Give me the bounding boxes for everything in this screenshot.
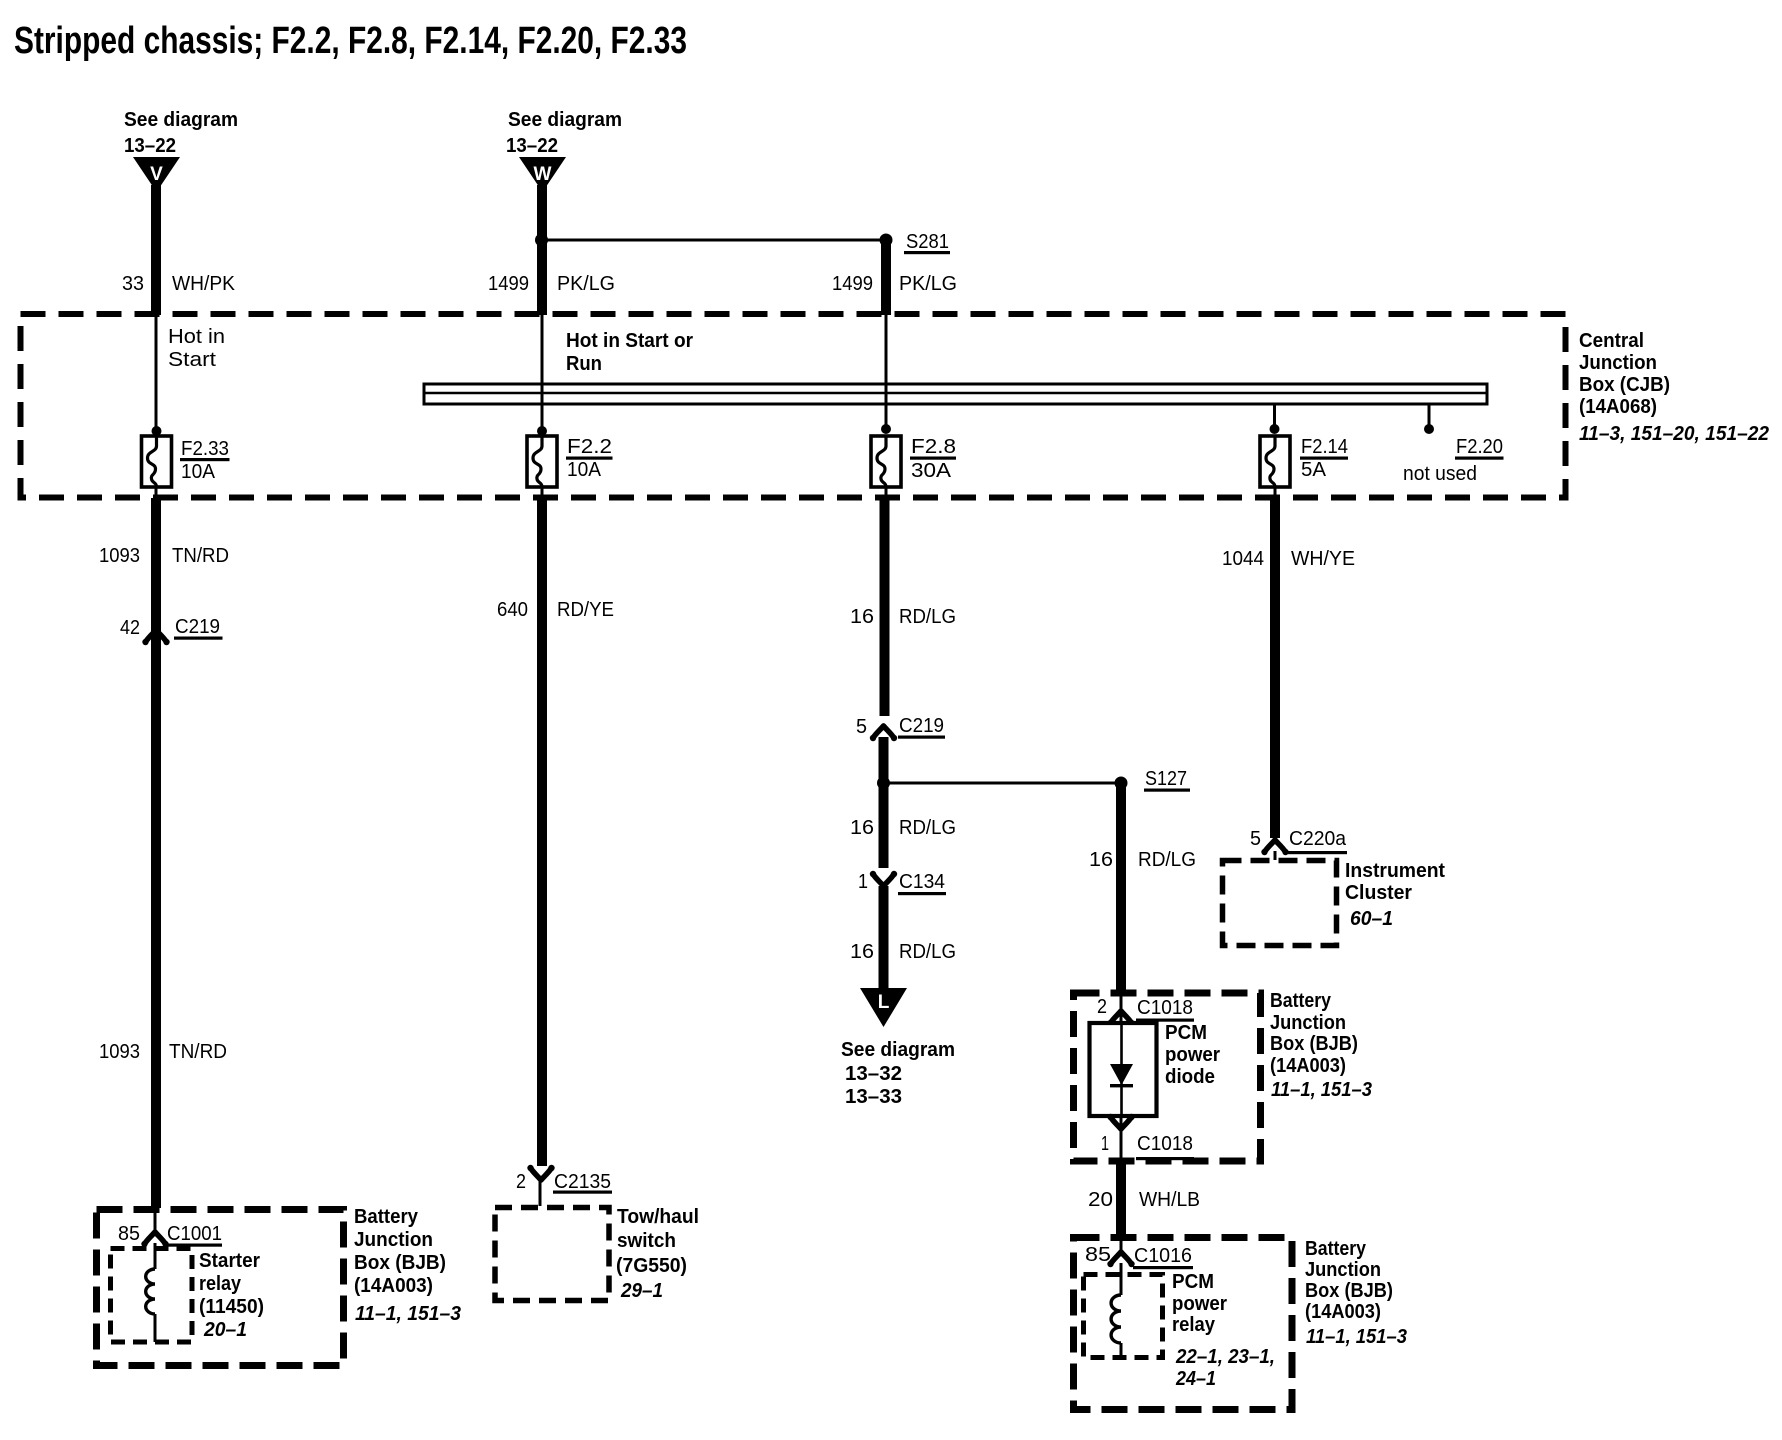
svg-text:TN/RD: TN/RD [169,1041,227,1063]
svg-text:See diagram: See diagram [124,109,238,131]
label PCM power relay [1172,1271,1275,1390]
label Battery Junction Box (BJB) (14A003) 11-1, 151-3 (left) [354,1206,461,1325]
svg-text:Box (BJB): Box (BJB) [1305,1280,1393,1302]
svg-text:16: 16 [850,817,874,839]
wire below C134 [879,886,889,988]
svg-text:W: W [534,164,552,185]
svg-text:13–33: 13–33 [845,1086,902,1108]
svg-text:F2.2: F2.2 [567,436,612,458]
svg-text:85: 85 [118,1223,140,1245]
svg-text:2: 2 [516,1171,526,1193]
svg-text:C219: C219 [175,616,220,638]
svg-text:diode: diode [1165,1066,1215,1088]
label 16 RD/LG fourth [1089,849,1196,871]
connector C134 pin 1 [858,871,946,895]
label 20 WH/LB [1088,1189,1200,1211]
splice S127 [1115,768,1191,792]
svg-text:F2.33: F2.33 [181,438,229,460]
wire into starter relay [154,1210,157,1232]
wire into instrument cluster [1274,851,1277,860]
svg-text:PK/LG: PK/LG [557,273,615,295]
svg-text:Junction: Junction [1270,1012,1346,1034]
svg-text:F2.8: F2.8 [911,436,956,458]
label Tow/haul switch (7G550) 29-1 [616,1206,699,1302]
svg-text:S127: S127 [1145,768,1187,790]
splice node to S127 [877,777,890,790]
label Central Junction Box (CJB) (14A068) 11-3, 151-20, 151-22 [1579,330,1769,445]
svg-text:(14A003): (14A003) [1305,1301,1381,1323]
PCM power diode box [1090,1023,1157,1116]
label Starter relay (11450) 20-1 [199,1250,264,1341]
svg-text:Hot in Start or: Hot in Start or [566,330,693,352]
starter relay box [111,1249,193,1343]
label 33 WH/PK [122,273,236,295]
label 1093 TN/RD upper [99,545,229,567]
svg-text:Run: Run [566,353,602,375]
label Battery Junction Box (BJB) (14A003) 11-1, 151-3 (relay) [1305,1238,1407,1348]
wire F2.33 to CJB edge [155,487,158,498]
svg-text:11–1, 151–3: 11–1, 151–3 [355,1303,461,1325]
label F2.14 5A [1300,436,1348,481]
wire to splice S281 [542,239,886,242]
svg-text:1: 1 [1101,1133,1109,1155]
svg-text:C220a: C220a [1289,828,1347,850]
node above F2.14 [1270,424,1280,434]
svg-text:C2135: C2135 [554,1171,611,1193]
svg-text:Instrument: Instrument [1345,860,1445,882]
node above F2.2 [537,426,547,436]
connector V from diagram 13-22 [124,109,238,192]
wire to splice S127 [884,782,1122,785]
svg-text:RD/LG: RD/LG [899,606,956,628]
label Hot in Start [168,326,225,371]
svg-text:Box (BJB): Box (BJB) [354,1252,446,1274]
wire below PCM relay coil [1120,1343,1123,1357]
svg-text:Stripped chassis; F2.2, F2.8,: Stripped chassis; F2.2, F2.8, F2.14, F2.… [14,20,687,62]
svg-text:PK/LG: PK/LG [899,273,957,295]
svg-text:V: V [150,164,163,185]
svg-text:PCM: PCM [1172,1271,1214,1293]
title [14,20,687,62]
svg-text:(14A003): (14A003) [1270,1055,1346,1077]
svg-text:1093: 1093 [99,545,140,567]
svg-text:F2.20: F2.20 [1456,436,1503,458]
label 16 RD/LG second [850,817,956,839]
svg-text:Box (CJB): Box (CJB) [1579,374,1670,396]
svg-text:1093: 1093 [99,1041,140,1063]
svg-text:Tow/haul: Tow/haul [617,1206,699,1228]
svg-text:(7G550): (7G550) [616,1255,687,1277]
label F2.20 not used [1403,436,1504,485]
label 1044 WH/YE [1222,548,1355,570]
fuse F2.14 5A [1260,436,1290,487]
connector W from diagram 13-22 [506,109,622,192]
svg-text:640: 640 [497,599,528,621]
node F2.20 not used [1424,424,1434,434]
svg-text:S281: S281 [906,231,949,253]
svg-text:Battery: Battery [1270,990,1332,1012]
battery junction box (PCM relay) [1074,1238,1293,1410]
wire 16 RD/LG to PCM diode [1116,783,1126,991]
tow/haul switch box [495,1208,609,1301]
wire inside CJB to fuse F2.8 [885,315,888,432]
wire W bus to fuse F2.2 [541,384,544,432]
svg-text:RD/LG: RD/LG [1138,849,1196,871]
wire to relay coil [154,1243,157,1269]
svg-text:RD/YE: RD/YE [557,599,614,621]
label 1499 PK/LG left [488,273,615,295]
bus bar [424,384,1487,404]
label 640 RD/YE [497,599,614,621]
svg-text:13–32: 13–32 [845,1063,902,1085]
svg-text:Hot in: Hot in [168,326,225,348]
svg-text:C1016: C1016 [1134,1245,1192,1267]
svg-text:TN/RD: TN/RD [172,545,229,567]
svg-text:16: 16 [850,941,874,963]
svg-text:RD/LG: RD/LG [899,817,956,839]
svg-text:Junction: Junction [354,1229,433,1251]
svg-text:16: 16 [850,606,874,628]
svg-text:not used: not used [1403,463,1477,485]
svg-text:power: power [1165,1044,1220,1066]
svg-text:Battery: Battery [1305,1238,1367,1260]
svg-text:Starter: Starter [199,1250,260,1272]
svg-text:relay: relay [199,1273,242,1295]
svg-text:relay: relay [1172,1314,1216,1336]
instrument cluster box [1223,861,1337,946]
svg-text:Junction: Junction [1305,1259,1381,1281]
central junction box (CJB) [21,314,1566,498]
connector C220a pin 5 [1250,828,1347,855]
label Battery Junction Box (BJB) (14A003) 11-1, 151-3 (diode) [1270,990,1372,1101]
svg-text:2: 2 [1097,996,1107,1018]
svg-text:20–1: 20–1 [203,1319,247,1341]
node on W wire [535,234,548,247]
svg-text:85: 85 [1085,1244,1111,1266]
connector L to diagram 13-32/13-33 [841,988,955,1108]
svg-text:42: 42 [120,617,140,639]
svg-text:11–3, 151–20, 151–22: 11–3, 151–20, 151–22 [1579,423,1769,445]
svg-text:L: L [878,992,890,1013]
svg-text:switch: switch [617,1230,676,1252]
svg-text:11–1, 151–3: 11–1, 151–3 [1306,1326,1407,1348]
wire bus to F2.20 [1428,404,1431,426]
svg-text:30A: 30A [911,460,952,482]
wire to PCM relay coil [1120,1263,1123,1295]
wire into PCM relay [1120,1236,1123,1252]
connector C1016 pin 85 [1085,1244,1193,1269]
wire S281 down to CJB [881,240,891,315]
svg-text:power: power [1172,1293,1227,1315]
label PCM power diode [1165,1022,1220,1088]
svg-text:See diagram: See diagram [508,109,622,131]
svg-text:60–1: 60–1 [1350,908,1393,930]
svg-text:Start: Start [168,349,216,371]
svg-text:16: 16 [1089,849,1113,871]
svg-text:10A: 10A [567,459,602,481]
wire 1093 TN/RD upper [151,498,161,1208]
svg-text:F2.14: F2.14 [1301,436,1348,458]
wire F2.14 to CJB edge [1274,487,1277,498]
wire inside CJB to bus [541,315,544,384]
svg-text:5: 5 [856,716,867,738]
svg-text:5A: 5A [1301,459,1327,481]
battery junction box (starter relay) [97,1210,344,1366]
wire below diode box [1120,1116,1123,1163]
svg-text:Battery: Battery [354,1206,419,1228]
label F2.33 10A [180,438,230,483]
fuse F2.33 10A [142,436,172,487]
svg-text:C219: C219 [899,715,944,737]
connector C1001 pin 85 [118,1223,222,1247]
svg-text:C1001: C1001 [167,1223,222,1245]
svg-text:13–22: 13–22 [506,135,558,157]
svg-text:WH/PK: WH/PK [172,273,236,295]
wire V down to CJB [151,185,161,315]
label Hot in Start or Run [566,330,693,375]
label F2.8 30A [910,436,956,482]
svg-text:(11450): (11450) [199,1296,264,1318]
label F2.2 10A [566,436,613,481]
svg-text:1: 1 [858,871,868,893]
svg-text:5: 5 [1250,828,1261,850]
label Instrument Cluster 60-1 [1345,860,1445,930]
svg-text:See diagram: See diagram [841,1039,955,1061]
svg-text:24–1: 24–1 [1175,1368,1216,1390]
svg-text:1499: 1499 [832,273,873,295]
connector C219 pin 42 [120,616,223,645]
splice S281 [880,231,951,254]
svg-text:1044: 1044 [1222,548,1264,570]
connector C1018 pin 2 [1097,996,1194,1026]
battery junction box (PCM diode) [1074,993,1261,1161]
label 1499 PK/LG right [832,273,957,295]
svg-text:WH/YE: WH/YE [1291,548,1355,570]
svg-text:(14A068): (14A068) [1579,396,1657,418]
wire F2.2 to CJB edge [541,487,544,498]
svg-text:WH/LB: WH/LB [1139,1189,1200,1211]
svg-text:Box (BJB): Box (BJB) [1270,1033,1358,1055]
svg-text:RD/LG: RD/LG [899,941,956,963]
svg-text:1499: 1499 [488,273,529,295]
connector C1018 pin 1 [1101,1114,1194,1160]
connector C2135 pin 2 [516,1165,612,1194]
PCM relay coil [1111,1295,1121,1343]
PCM power relay box [1084,1275,1163,1358]
wire 640 RD/YE [537,498,547,1166]
wire 20 WH/LB [1116,1163,1126,1234]
wire bus to F2.14 [1273,404,1276,432]
label 1093 TN/RD lower [99,1041,227,1063]
wire below C219 [879,737,889,868]
connector C219 pin 5 [856,715,945,741]
node above F2.8 [881,424,891,434]
svg-text:29–1: 29–1 [620,1280,663,1302]
svg-text:Cluster: Cluster [1345,882,1412,904]
svg-text:Junction: Junction [1579,352,1657,374]
svg-text:Central: Central [1579,330,1644,352]
svg-text:(14A003): (14A003) [354,1275,433,1297]
starter relay coil [146,1269,155,1314]
fuse F2.8 30A [871,436,901,487]
svg-text:11–1, 151–3: 11–1, 151–3 [1271,1079,1372,1101]
diode symbol [1110,1023,1133,1116]
wire W down to CJB [537,185,547,315]
wire F2.8 to CJB edge [885,487,888,498]
svg-text:C1018: C1018 [1137,1133,1193,1155]
label 16 RD/LG first [850,606,956,628]
fuse F2.2 10A [527,436,557,487]
wire into tow/haul switch [539,1181,542,1206]
wire into diode [1120,991,1123,1023]
wire 16 RD/LG first [880,498,890,716]
wire inside CJB to fuse F2.33 [155,315,158,432]
svg-text:C134: C134 [899,871,945,893]
wire below coil [154,1314,157,1342]
svg-text:C1018: C1018 [1137,997,1193,1019]
label 16 RD/LG third [850,941,956,963]
svg-text:10A: 10A [181,461,216,483]
node above F2.33 [152,426,162,436]
svg-text:20: 20 [1088,1189,1113,1211]
svg-text:22–1, 23–1,: 22–1, 23–1, [1175,1346,1275,1368]
wire 1044 WH/YE [1270,498,1280,838]
svg-text:PCM: PCM [1165,1022,1207,1044]
svg-text:13–22: 13–22 [124,135,176,157]
svg-text:33: 33 [122,273,144,295]
